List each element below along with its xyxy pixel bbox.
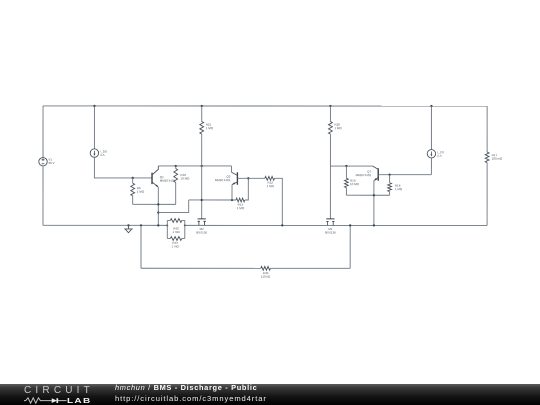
node lower loop left [140,224,142,226]
wire left edge lower [42,166,44,225]
current source I2 [427,150,435,158]
wire top rail [43,105,487,107]
wire Q2 base wire [237,177,248,179]
wire R6 top lead [132,178,134,183]
node ground / bottom rail [127,224,129,226]
logo wire left [24,399,26,401]
ground [127,225,129,229]
wire R6 bottom lead [132,196,134,205]
wire emitter tap [158,200,188,213]
svg-text:1 MΩ: 1 MΩ [137,190,145,194]
voltage source V1 [39,158,47,166]
wire main vertical 1 [201,134,203,219]
wire I2 lower [430,158,432,175]
wire left edge upper [42,106,44,158]
node Q2 emitter / y200 [231,199,233,201]
wire R20 top lead [329,106,331,122]
wire R21 top lead [201,106,203,122]
svg-text:0 A: 0 A [100,153,104,157]
svg-text:BSS138: BSS138 [325,231,336,235]
logo diode [52,398,57,403]
svg-text:MMBT4401: MMBT4401 [160,179,176,183]
node Q1 base / R6 top [132,177,134,179]
wire I2 upper [430,106,432,149]
resistor R6 [131,183,135,196]
wire R19 bottom lead [345,188,347,196]
svg-text:1 MΩ: 1 MΩ [267,184,275,188]
wire bottom rail right [185,224,487,226]
svg-text:30 V: 30 V [48,161,54,165]
resistor R42 [166,220,168,238]
svg-text:10 MΩ: 10 MΩ [350,182,360,186]
wire Q2 collector drop [231,166,233,172]
node top rail / R20 branch [329,105,331,107]
node main vertical 1 / y166 [201,165,203,167]
resistor R12 [265,176,275,180]
transistor Q2 [236,172,238,185]
svg-text:10 MΩ: 10 MΩ [180,176,190,180]
wire R6-R10 bottom link [133,203,176,205]
node lower loop right [349,224,351,226]
svg-text:0 A: 0 A [437,154,441,158]
svg-text:110 kΩ: 110 kΩ [261,275,271,279]
logo wire right [58,399,67,401]
wire main vertical 2 [329,134,331,219]
wire collector rail y166 [158,165,231,167]
node R42 bracket left [166,224,168,226]
svg-text:1 MΩ: 1 MΩ [237,206,245,210]
node Q7 base / R16 [388,173,390,175]
wire R16 bottom lead [389,192,391,196]
transistor Q1 [151,173,153,184]
wire R14 right lead [245,178,249,200]
transistor Q7 [377,168,379,181]
resistor R40 [261,266,271,270]
node R10 top [175,165,177,167]
resistor R10 [174,168,178,182]
resistor R43 [167,237,170,239]
wire Q1 emitter vertical [157,187,159,225]
mosfet M1 [326,218,334,220]
node top rail / R21 branch [201,105,203,107]
CircuitLab logo LAB [67,396,92,405]
resistor R19 [345,178,349,187]
wire lower loop right [349,225,351,268]
node R12 / bottom rail [281,224,283,226]
resistor R21 [200,121,204,134]
wire R10 bottom lead [175,182,177,204]
current source I1 [90,149,98,157]
wire bottom rail left [43,224,167,226]
wire base feed y200 [189,199,236,201]
wire lower loop left [140,225,142,268]
wire collector rail right [330,165,372,167]
resistor R20 [329,122,333,135]
wire lower loop bottom left [141,267,261,269]
wire Q7 base wire [378,174,431,176]
wire right edge lower [486,163,488,226]
wire R16 top lead [389,175,391,183]
wire right edge upper [486,106,488,152]
node Q7 emitter / bottom rail [373,224,375,226]
wire Q2 emitter vertical [231,185,233,200]
footer title and url [115,384,267,403]
node Q1 emitter / bottom rail [157,224,159,226]
node emitter tap [157,211,159,213]
svg-text:1 MΩ: 1 MΩ [395,187,403,191]
resistor R14 [236,198,245,202]
wire Q7 emitter vertical [373,181,375,226]
svg-text:1 MΩ: 1 MΩ [334,126,342,130]
wire lower loop bottom right [270,267,350,269]
svg-text:100 mΩ: 100 mΩ [492,157,503,161]
svg-text:1 mΩ: 1 mΩ [172,230,180,234]
CircuitLab logo text [24,385,94,396]
svg-text:MMBT4401: MMBT4401 [356,173,372,177]
node top rail / I1 branch [93,105,95,107]
wire R19 top lead [345,166,347,178]
wire emitter link y195 [346,194,389,196]
wire R10 top lead [175,166,177,169]
resistor R16 [388,183,392,192]
svg-text:MMBT4401: MMBT4401 [215,178,231,182]
node R19 top [345,165,347,167]
mosfet M2 [198,218,206,220]
node top rail / I2 branch [430,105,432,107]
svg-text:BSS138: BSS138 [196,230,207,234]
logo resistor zigzag [26,398,52,403]
node main vertical 1 / y200 [201,199,203,201]
node R42 bracket right [184,224,186,226]
wire R12 left lead [248,177,264,179]
wire R12 right to bottom rail [274,178,282,225]
resistor R17 [485,152,489,163]
svg-text:1 MΩ: 1 MΩ [206,126,214,130]
node emitter / R6R10 link [157,203,159,205]
wire I1 lower to Q1 base [94,157,152,178]
wire I1 upper [93,106,95,149]
node Q2 base / R14 [247,177,249,179]
node Q7 emitter / y195 [373,194,375,196]
svg-text:1 mΩ: 1 mΩ [171,244,179,248]
